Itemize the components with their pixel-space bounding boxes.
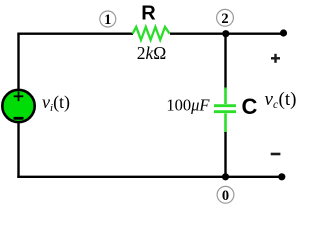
svg-text:C: C <box>242 94 258 119</box>
top-right terminal dot <box>280 29 287 36</box>
wire left vertical lower (source bottom to bottom-left corner) <box>17 122 19 178</box>
node 2 junction dot <box>222 30 229 37</box>
resistor R (green zigzag) <box>133 27 170 40</box>
output plus sign <box>271 54 280 63</box>
wire capacitor branch lower black <box>224 132 226 177</box>
node 0 circle <box>217 186 234 203</box>
wire top horizontal right segment <box>170 33 284 35</box>
output minus sign <box>271 153 281 156</box>
wire capacitor branch upper black <box>224 34 226 89</box>
voltage source V1 circle <box>2 90 34 122</box>
voltage source plus sign <box>14 92 24 102</box>
wire top horizontal left segment <box>17 33 133 35</box>
voltage source minus sign <box>14 117 24 120</box>
svg-text:100μF: 100μF <box>166 96 210 115</box>
node 0 junction dot <box>222 173 229 180</box>
capacitor C (green) <box>214 88 236 134</box>
wire left vertical (source to top-left corner) <box>17 34 19 90</box>
svg-text:0: 0 <box>222 188 229 204</box>
wire bottom horizontal <box>17 176 282 178</box>
bottom-right terminal dot <box>278 173 285 180</box>
svg-text:vc(t): vc(t) <box>265 89 297 111</box>
svg-text:2: 2 <box>221 11 228 27</box>
svg-text:R: R <box>141 2 156 24</box>
svg-text:1: 1 <box>104 12 111 28</box>
svg-text:2kΩ: 2kΩ <box>137 43 167 63</box>
node 1 circle <box>100 11 116 27</box>
svg-text:vi(t): vi(t) <box>42 92 70 114</box>
node 2 circle <box>217 9 234 26</box>
